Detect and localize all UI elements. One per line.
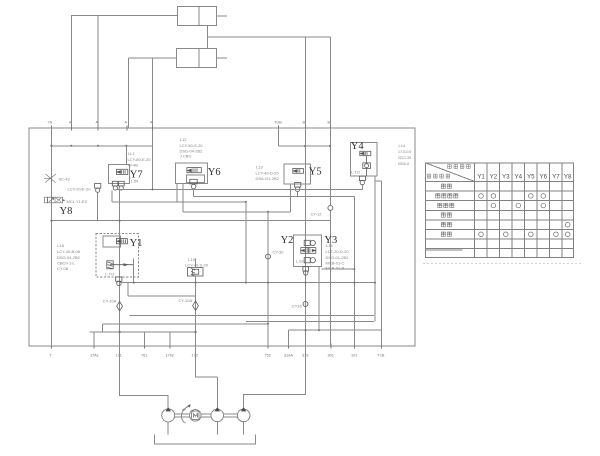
svg-text:LCY-25-D-05: LCY-25-D-05 (398, 149, 411, 154)
svg-text:LL1: LL1 (128, 151, 135, 156)
svg-text:319A: 319A (284, 354, 293, 358)
svg-text:L13: L13 (256, 165, 263, 170)
svg-text:7A: 7A (48, 121, 53, 125)
svg-text:CY16: CY16 (292, 303, 303, 308)
svg-text:Y6: Y6 (540, 174, 548, 181)
svg-text:LCY-40-S-20: LCY-40-S-20 (185, 263, 209, 268)
svg-text:752: 752 (265, 354, 271, 358)
svg-text:SC-42: SC-42 (59, 177, 71, 182)
svg-text:Y8: Y8 (60, 206, 73, 217)
svg-text:17b2: 17b2 (166, 354, 174, 358)
svg-text:L.TO: L.TO (105, 272, 114, 277)
svg-text:MCB-01-B: MCB-01-B (326, 266, 345, 271)
svg-text:CBCh-1-L: CBCh-1-L (57, 261, 76, 266)
svg-text:761: 761 (141, 354, 147, 358)
svg-text:MCL Y1-E2: MCL Y1-E2 (67, 199, 88, 204)
svg-text:CY-10A: CY-10A (179, 298, 193, 303)
svg-text:171: 171 (116, 354, 122, 358)
svg-text:LCY-80-E-20: LCY-80-E-20 (128, 157, 152, 162)
svg-text:Y1: Y1 (130, 238, 143, 249)
svg-text:CY-08: CY-08 (57, 266, 69, 271)
svg-text:T: T (50, 354, 53, 358)
svg-text:1.59: 1.59 (131, 179, 140, 184)
svg-text:TGB: TGB (274, 121, 282, 125)
svg-text:DSG-C1-2B2: DSG-C1-2B2 (398, 155, 411, 160)
svg-text:LCY-40-B-08: LCY-40-B-08 (57, 249, 81, 254)
svg-text:DSG-04-2B2: DSG-04-2B2 (57, 255, 81, 260)
svg-text:Y5: Y5 (527, 174, 535, 181)
svg-text:MCB-01-C: MCB-01-C (326, 260, 345, 265)
svg-text:L16: L16 (57, 243, 64, 248)
svg-text:CY-10A: CY-10A (103, 298, 117, 303)
svg-text:LCY-40-D-20: LCY-40-D-20 (256, 170, 280, 175)
svg-text:L15: L15 (326, 243, 333, 248)
svg-text:172: 172 (192, 354, 198, 358)
svg-text:LCY-20-E-20: LCY-20-E-20 (68, 187, 92, 192)
svg-text:Y6: Y6 (208, 167, 221, 178)
svg-text:LCT-20-D-20: LCT-20-D-20 (326, 249, 350, 254)
svg-text:CY-30: CY-30 (273, 249, 285, 254)
svg-text:101: 101 (351, 354, 357, 358)
svg-text:Y5: Y5 (309, 166, 322, 177)
svg-text:Y4: Y4 (351, 141, 365, 152)
svg-text:KEB-B1-B: KEB-B1-B (398, 161, 409, 166)
svg-text:L14: L14 (399, 143, 406, 148)
svg-text:J CBD: J CBD (180, 153, 192, 158)
svg-text:LCY-50-S-20: LCY-50-S-20 (180, 143, 204, 148)
svg-text:T1B: T1B (378, 354, 385, 358)
svg-text:DSG-01-2B2: DSG-01-2B2 (326, 255, 350, 260)
svg-text:17A1: 17A1 (90, 354, 99, 358)
svg-text:L.Eb: L.Eb (296, 258, 305, 263)
svg-text:Y8: Y8 (564, 174, 572, 181)
svg-text:DSA-G1-2B2: DSA-G1-2B2 (256, 176, 280, 181)
svg-text:A: A (125, 121, 128, 125)
svg-text:Y4: Y4 (515, 174, 523, 181)
svg-text:Y2: Y2 (281, 235, 294, 246)
svg-text:Y2: Y2 (490, 174, 498, 181)
svg-text:Y3: Y3 (502, 174, 510, 181)
svg-text:L10: L10 (188, 257, 195, 262)
svg-text:Y7: Y7 (552, 174, 560, 181)
svg-text:301: 301 (328, 354, 334, 358)
svg-text:W-4B: W-4B (128, 163, 138, 168)
svg-text:L.TO: L.TO (351, 169, 360, 174)
svg-text:Y1: Y1 (477, 174, 485, 181)
svg-text:L12: L12 (180, 137, 187, 142)
svg-text:CY-12: CY-12 (311, 211, 323, 216)
